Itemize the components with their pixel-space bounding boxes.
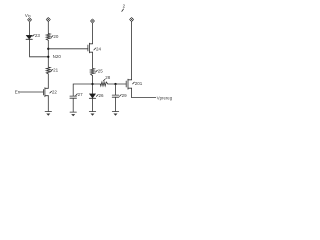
wire bbox=[131, 22, 133, 80]
transistor M201 bbox=[126, 79, 143, 89]
wire output bbox=[132, 88, 156, 97]
wire bbox=[115, 97, 117, 111]
ground bbox=[45, 112, 51, 116]
wire bbox=[47, 40, 49, 67]
svg-text:22: 22 bbox=[52, 89, 58, 94]
wire bbox=[30, 39, 49, 56]
wire bus left to C27 bbox=[73, 84, 92, 96]
wire bbox=[47, 74, 49, 88]
node junction bbox=[91, 83, 93, 85]
wire bbox=[115, 84, 117, 95]
wire bbox=[29, 22, 31, 35]
port 2 bbox=[122, 3, 134, 21]
capacitor C29 bbox=[112, 93, 127, 98]
ground bbox=[70, 112, 76, 116]
wire bbox=[108, 83, 126, 85]
svg-text:Vprereg: Vprereg bbox=[157, 95, 173, 100]
svg-text:26: 26 bbox=[99, 93, 105, 98]
wire bbox=[47, 22, 49, 34]
ground bbox=[112, 112, 118, 116]
svg-text:20: 20 bbox=[53, 34, 59, 39]
wire En to gate bbox=[20, 91, 43, 93]
zener diode D23 bbox=[26, 33, 40, 39]
resistor R21 bbox=[46, 67, 58, 74]
resistor R20 bbox=[46, 34, 59, 41]
port (top of R20) bbox=[46, 17, 50, 21]
resistor R25 bbox=[91, 68, 104, 75]
svg-text:21: 21 bbox=[53, 68, 59, 73]
capacitor C27 bbox=[70, 92, 83, 98]
port Vin bbox=[25, 13, 32, 22]
wire bbox=[92, 23, 94, 44]
svg-text:28: 28 bbox=[105, 75, 111, 80]
svg-text:N20: N20 bbox=[53, 54, 62, 59]
diode D26 bbox=[89, 93, 104, 98]
wire bbox=[93, 83, 101, 85]
wire bbox=[47, 96, 49, 112]
wire bbox=[92, 98, 94, 111]
wire bbox=[92, 76, 94, 94]
resistor R28 bbox=[100, 75, 110, 86]
svg-text:23: 23 bbox=[35, 33, 41, 38]
svg-text:24: 24 bbox=[96, 46, 102, 51]
node junction bbox=[47, 48, 49, 50]
wire bbox=[92, 52, 94, 68]
ground bbox=[89, 112, 95, 116]
svg-text:29: 29 bbox=[122, 93, 128, 98]
wire bbox=[72, 98, 74, 112]
wire to M24 gate bbox=[48, 48, 88, 50]
port (top of M24) bbox=[90, 19, 94, 23]
transistor M24 bbox=[88, 43, 102, 53]
transistor M22 bbox=[43, 88, 57, 97]
node junction bbox=[114, 83, 116, 85]
svg-text:201: 201 bbox=[135, 81, 143, 86]
node N20 bbox=[47, 54, 61, 59]
svg-text:25: 25 bbox=[98, 69, 104, 74]
svg-text:27: 27 bbox=[78, 92, 84, 97]
